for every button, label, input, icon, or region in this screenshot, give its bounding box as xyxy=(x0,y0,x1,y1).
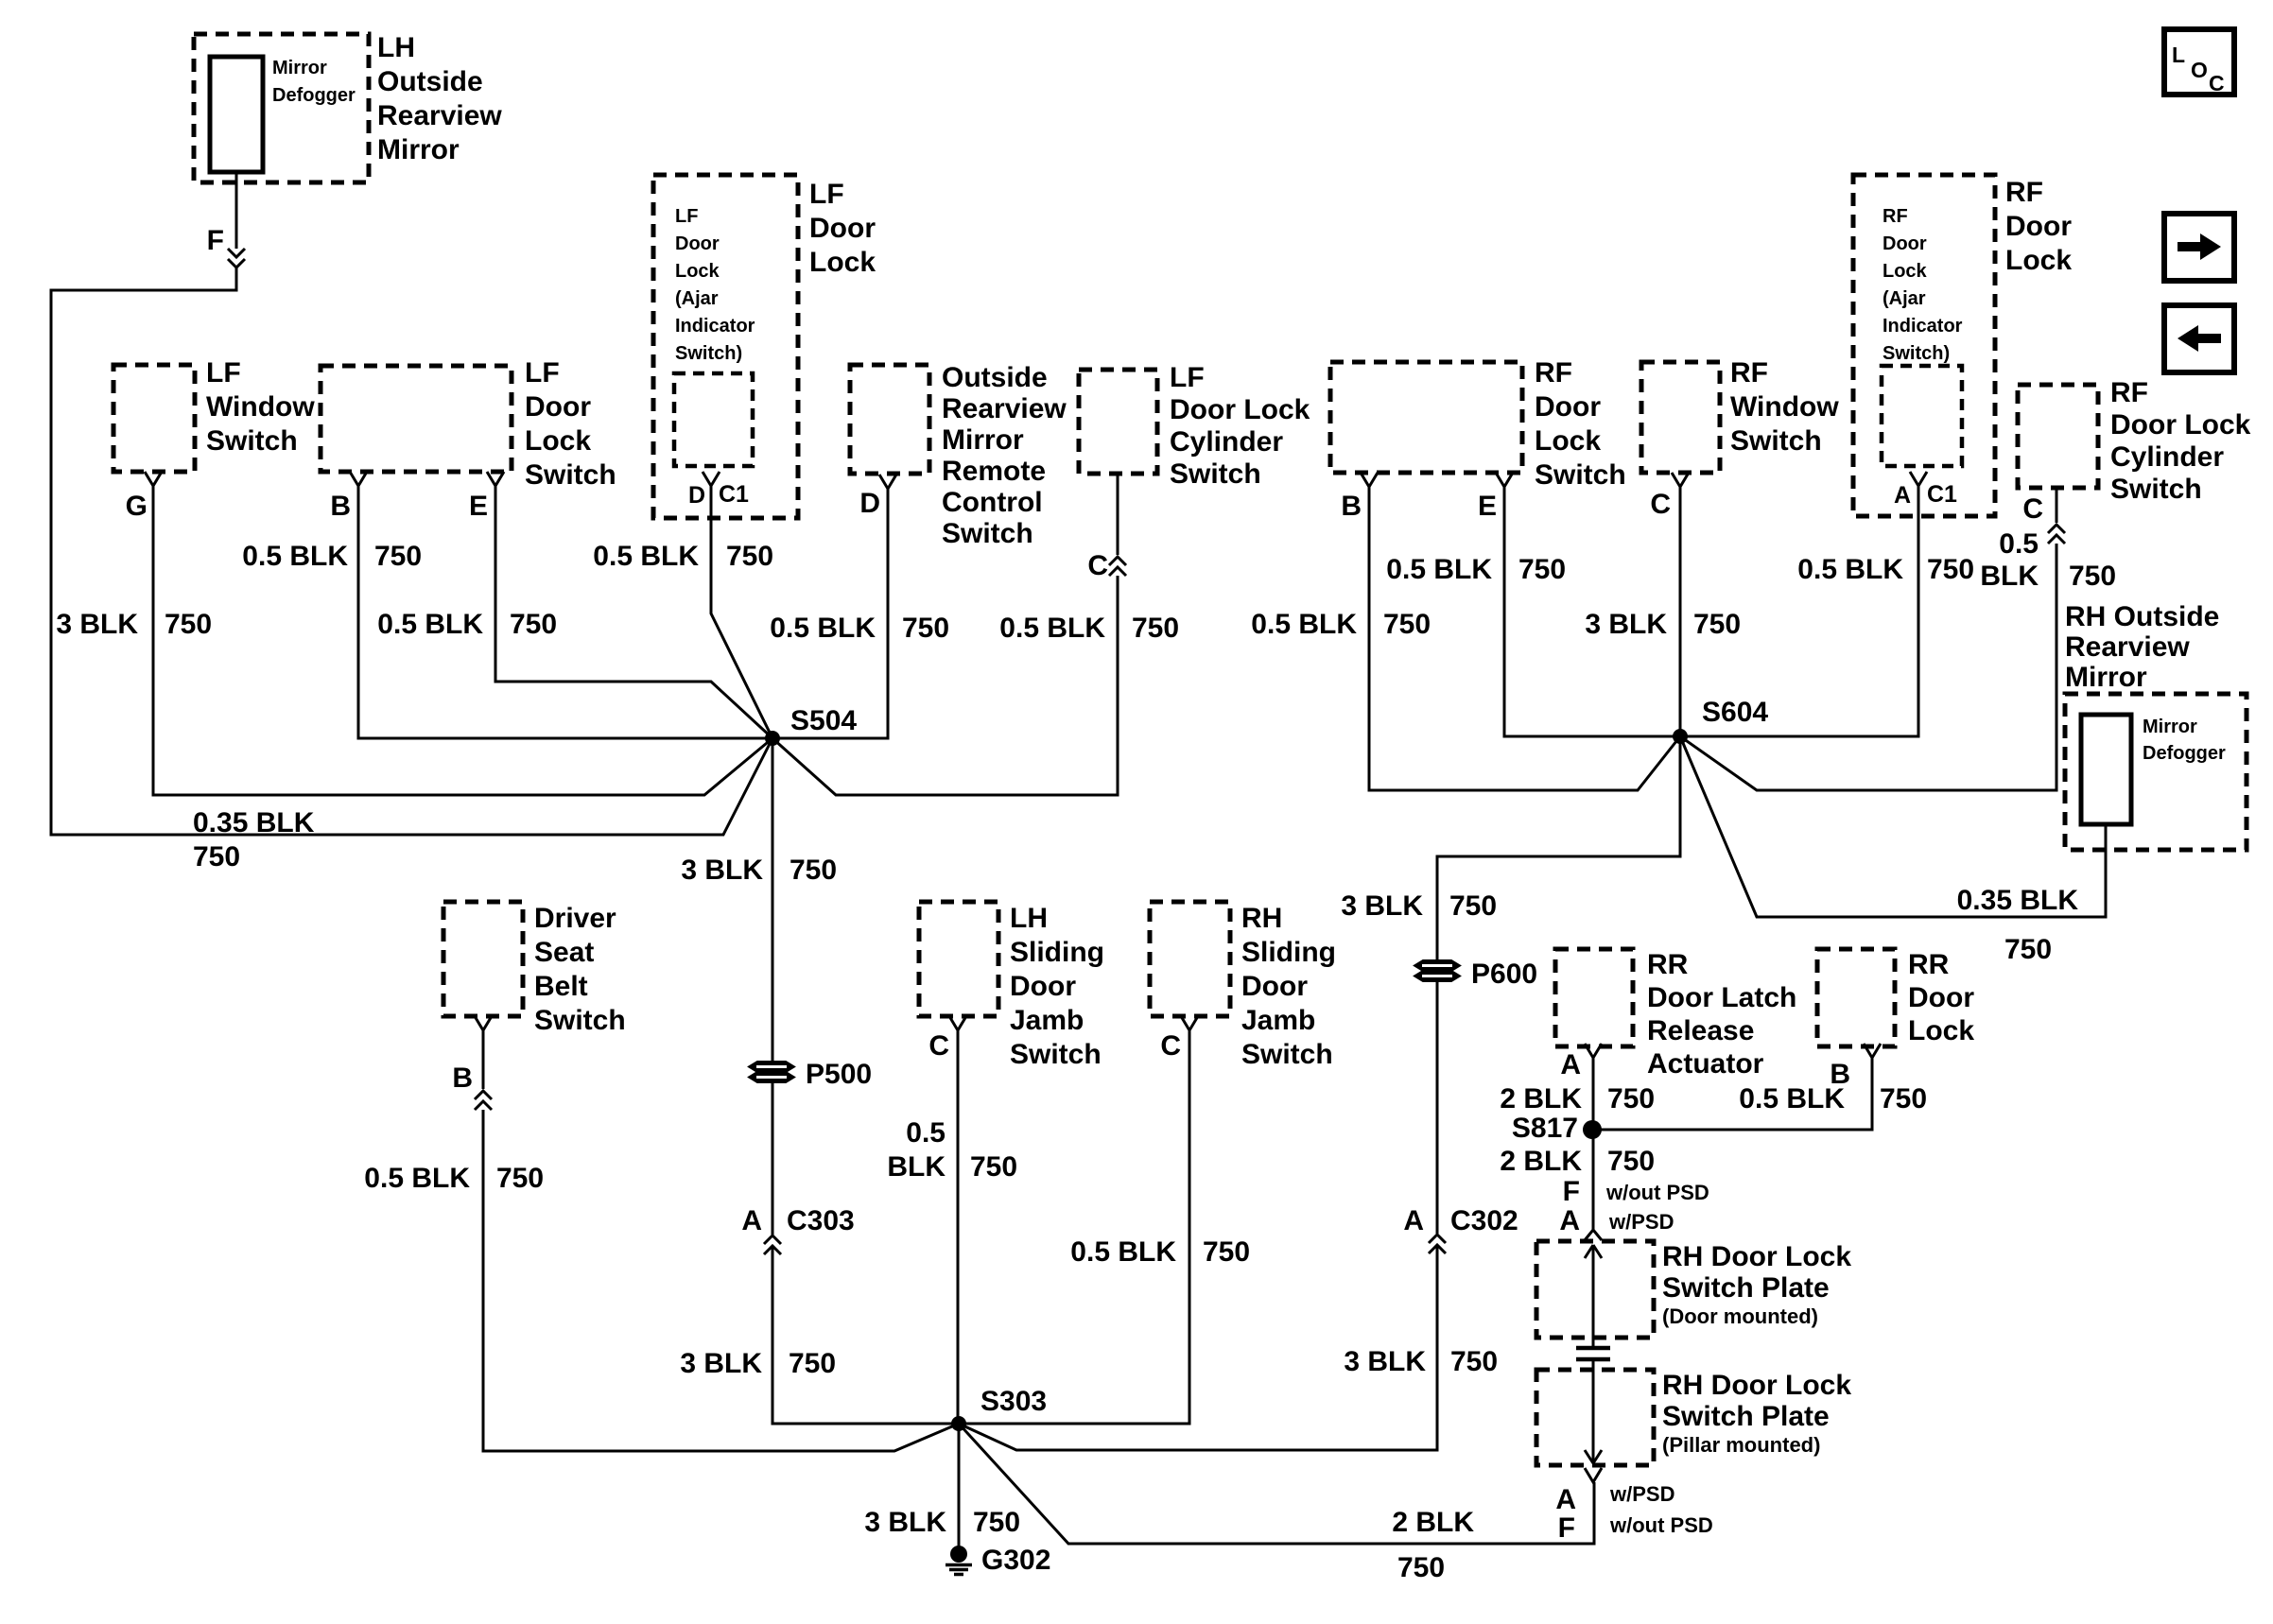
outside rearview mirror remote control switch box xyxy=(850,365,929,474)
svg-text:w/PSD: w/PSD xyxy=(1608,1210,1674,1234)
svg-text:Door: Door xyxy=(1241,971,1308,1002)
left arrow box xyxy=(2164,305,2234,372)
pin G fork xyxy=(145,472,162,486)
svg-text:0.5 BLK: 0.5 BLK xyxy=(364,1163,470,1194)
svg-text:750: 750 xyxy=(1518,554,1566,585)
svg-text:Switch: Switch xyxy=(206,425,298,457)
svg-text:LH: LH xyxy=(377,32,415,63)
right arrow box xyxy=(2164,214,2234,281)
svg-text:Jamb: Jamb xyxy=(1241,1005,1315,1036)
svg-text:A: A xyxy=(1555,1484,1576,1515)
svg-text:Sliding: Sliding xyxy=(1010,937,1104,968)
arrow down inside pillar mounted plate xyxy=(1592,1361,1595,1461)
svg-text:750: 750 xyxy=(1880,1083,1927,1114)
wire C from LF cylinder switch xyxy=(1117,474,1119,555)
pin B fork (RF) xyxy=(1361,473,1378,487)
svg-text:w/out PSD: w/out PSD xyxy=(1605,1181,1709,1204)
pin A fork (RR latch) xyxy=(1585,1044,1602,1058)
svg-text:C: C xyxy=(1650,489,1671,520)
wire RH defogger 0.35 BLK 750 to S604 xyxy=(1680,736,2106,917)
svg-text:Lock: Lock xyxy=(525,425,591,457)
svg-text:RH Door Lock: RH Door Lock xyxy=(1662,1241,1851,1272)
svg-text:Cylinder: Cylinder xyxy=(1170,426,1283,458)
wire B from seat belt switch xyxy=(482,1030,485,1089)
svg-text:Lock: Lock xyxy=(809,247,876,278)
connector chevrons B (seat belt) xyxy=(475,1091,492,1099)
svg-text:0.5 BLK: 0.5 BLK xyxy=(770,613,876,644)
svg-text:Lock: Lock xyxy=(1535,425,1601,457)
LH outside rearview mirror box xyxy=(194,34,369,182)
connector chevrons on wire F xyxy=(228,249,245,257)
pin A/C1 fork (RF ajar) xyxy=(1910,472,1927,486)
RF door lock cylinder switch box xyxy=(2018,385,2098,488)
svg-text:3 BLK: 3 BLK xyxy=(1341,890,1423,922)
LF window switch box xyxy=(113,365,195,472)
svg-text:0.5 BLK: 0.5 BLK xyxy=(1797,554,1903,585)
svg-text:(Pillar mounted): (Pillar mounted) xyxy=(1662,1433,1820,1457)
svg-text:Switch: Switch xyxy=(1730,425,1822,457)
svg-text:750: 750 xyxy=(2069,561,2116,592)
wire 3 BLK 750 to S303 (right) xyxy=(959,1245,1437,1450)
svg-text:Seat: Seat xyxy=(534,937,594,968)
pin B fork (seat belt) xyxy=(475,1016,492,1030)
svg-text:0.35 BLK: 0.35 BLK xyxy=(193,807,315,838)
door/pillar interface bars xyxy=(1576,1348,1610,1359)
svg-text:Door Lock: Door Lock xyxy=(1170,394,1310,425)
RH sliding door jamb switch box xyxy=(1150,902,1230,1016)
svg-text:C: C xyxy=(2209,71,2225,95)
pin B fork xyxy=(350,472,367,486)
svg-text:Switch Plate: Switch Plate xyxy=(1662,1401,1830,1432)
svg-text:2 BLK: 2 BLK xyxy=(1500,1083,1582,1114)
wire A RR latch 2 BLK 750 xyxy=(1592,1058,1595,1130)
svg-text:Door: Door xyxy=(1883,233,1927,254)
pin fork below pillar plate xyxy=(1585,1468,1602,1482)
RR door latch release actuator box xyxy=(1555,949,1633,1046)
connector chevrons C302 xyxy=(1429,1235,1446,1243)
RF door lock switch box xyxy=(1330,362,1522,473)
svg-text:LH: LH xyxy=(1010,903,1048,934)
svg-text:A: A xyxy=(1559,1205,1580,1236)
wire below P500 xyxy=(772,1083,774,1235)
mirror defogger element (LH) xyxy=(210,57,263,172)
svg-text:Switch: Switch xyxy=(525,459,616,491)
svg-text:750: 750 xyxy=(1450,1346,1498,1377)
svg-text:Door: Door xyxy=(809,213,876,244)
svg-text:0.5 BLK: 0.5 BLK xyxy=(1251,609,1357,640)
svg-text:C303: C303 xyxy=(787,1205,855,1236)
connector P600 xyxy=(1414,960,1460,971)
svg-text:3 BLK: 3 BLK xyxy=(56,609,138,640)
RF window switch box xyxy=(1641,362,1720,473)
wire 2 BLK 750 below S817 xyxy=(1592,1130,1595,1230)
svg-text:0.35 BLK: 0.35 BLK xyxy=(1957,885,2079,916)
svg-text:Switch: Switch xyxy=(1170,458,1261,490)
svg-text:LF: LF xyxy=(809,179,844,210)
svg-text:Rearview: Rearview xyxy=(2065,631,2190,663)
pin D/C1 fork xyxy=(703,472,720,486)
svg-text:S604: S604 xyxy=(1702,697,1768,728)
svg-text:Switch: Switch xyxy=(2110,474,2202,505)
svg-text:D: D xyxy=(688,482,705,509)
svg-text:750: 750 xyxy=(970,1151,1017,1183)
svg-text:RF: RF xyxy=(1730,357,1768,389)
svg-text:w/out PSD: w/out PSD xyxy=(1609,1513,1713,1537)
svg-text:Sliding: Sliding xyxy=(1241,937,1336,968)
wire C 0.5 BLK 750 to S504 xyxy=(772,576,1118,795)
wire 3 BLK 750 to S303 xyxy=(772,1246,958,1424)
svg-text:Indicator: Indicator xyxy=(1883,316,1963,337)
svg-text:Defogger: Defogger xyxy=(2143,743,2226,764)
svg-text:Door: Door xyxy=(1908,982,1974,1013)
splice S303 junction dot xyxy=(951,1416,966,1431)
wire B 0.5 BLK 750 xyxy=(358,486,772,738)
svg-text:3 BLK: 3 BLK xyxy=(680,1348,762,1379)
svg-text:Door: Door xyxy=(2005,211,2072,242)
RH door lock switch plate door mounted box xyxy=(1536,1241,1654,1338)
svg-text:Belt: Belt xyxy=(534,971,588,1002)
pin E fork (RF) xyxy=(1496,473,1513,487)
svg-text:C: C xyxy=(928,1030,949,1062)
svg-text:G: G xyxy=(126,491,147,522)
LF door lock switch box xyxy=(321,366,512,472)
svg-text:RF: RF xyxy=(1535,357,1572,389)
connector fork into switch plate xyxy=(1585,1230,1602,1240)
svg-text:RR: RR xyxy=(1647,949,1689,980)
pin E fork xyxy=(487,472,504,486)
svg-text:750: 750 xyxy=(1607,1083,1655,1114)
svg-text:Actuator: Actuator xyxy=(1647,1048,1764,1080)
svg-text:Lock: Lock xyxy=(2005,245,2072,276)
ground G302 symbol xyxy=(950,1546,967,1563)
LF door lock ajar indicator outer box xyxy=(653,175,798,518)
svg-text:3 BLK: 3 BLK xyxy=(1585,609,1667,640)
pin C fork (RH jamb) xyxy=(1181,1016,1198,1030)
wire G 3 BLK 750 xyxy=(153,486,772,795)
svg-text:Door: Door xyxy=(1010,971,1076,1002)
svg-text:Jamb: Jamb xyxy=(1010,1005,1084,1036)
svg-text:0.5 BLK: 0.5 BLK xyxy=(377,609,483,640)
connector P500 xyxy=(749,1062,794,1072)
svg-text:RF: RF xyxy=(1883,206,1908,227)
pin C fork (LH jamb) xyxy=(949,1016,966,1030)
svg-text:S817: S817 xyxy=(1512,1113,1578,1144)
svg-text:P600: P600 xyxy=(1471,959,1537,990)
svg-text:LF: LF xyxy=(1170,362,1205,393)
svg-text:C: C xyxy=(1087,550,1108,581)
svg-text:G302: G302 xyxy=(981,1545,1050,1576)
RF door lock ajar indicator inner box xyxy=(1882,366,1962,466)
wire 0.5 BLK 750 to S303 xyxy=(483,1110,959,1451)
svg-text:Remote: Remote xyxy=(942,456,1046,487)
svg-text:(Door mounted): (Door mounted) xyxy=(1662,1304,1818,1328)
svg-text:C: C xyxy=(1160,1030,1181,1062)
splice S817 junction dot xyxy=(1583,1120,1602,1139)
svg-text:E: E xyxy=(1478,491,1497,522)
svg-text:RR: RR xyxy=(1908,949,1950,980)
svg-text:0.5 BLK: 0.5 BLK xyxy=(242,541,348,572)
svg-text:Indicator: Indicator xyxy=(675,316,755,337)
svg-text:Switch): Switch) xyxy=(675,343,742,364)
svg-text:750: 750 xyxy=(1927,554,1974,585)
svg-text:LF: LF xyxy=(525,357,560,389)
svg-text:0.5 BLK: 0.5 BLK xyxy=(1070,1236,1176,1268)
pin D fork (ORVM) xyxy=(879,475,896,489)
wire 0.35 BLK 750 (F to S504) xyxy=(51,268,772,835)
svg-text:RH: RH xyxy=(1241,903,1282,934)
svg-text:O: O xyxy=(2191,58,2208,82)
svg-text:RH Outside: RH Outside xyxy=(2065,601,2219,632)
svg-text:750: 750 xyxy=(165,609,212,640)
wire D ORVM 0.5 BLK 750 xyxy=(772,489,888,738)
svg-text:C: C xyxy=(2022,493,2043,525)
svg-text:Rearview: Rearview xyxy=(377,100,502,131)
wire A RF ajar 0.5 BLK 750 xyxy=(1680,486,1918,736)
svg-text:750: 750 xyxy=(789,1348,836,1379)
svg-text:Driver: Driver xyxy=(534,903,616,934)
svg-text:C1: C1 xyxy=(719,481,749,508)
driver seat belt switch box xyxy=(443,902,523,1016)
svg-text:RH Door Lock: RH Door Lock xyxy=(1662,1370,1851,1401)
svg-text:750: 750 xyxy=(1203,1236,1250,1268)
LF door lock cylinder switch box xyxy=(1079,370,1157,474)
RH outside rearview mirror box xyxy=(2065,694,2247,850)
svg-text:Defogger: Defogger xyxy=(272,85,356,106)
svg-text:Mirror: Mirror xyxy=(2065,662,2147,693)
mirror defogger element (RH) xyxy=(2081,715,2131,824)
svg-text:0.5: 0.5 xyxy=(1999,528,2039,560)
wire C RH jamb to S303 xyxy=(958,1030,1189,1424)
svg-text:750: 750 xyxy=(973,1507,1020,1538)
svg-text:Window: Window xyxy=(206,391,315,423)
svg-text:750: 750 xyxy=(374,541,422,572)
svg-text:750: 750 xyxy=(1397,1552,1445,1583)
svg-text:RF: RF xyxy=(2005,177,2043,208)
svg-text:F: F xyxy=(207,225,224,256)
wire C LH jamb to S303 xyxy=(957,1030,960,1424)
wire 2 BLK 750 S303 to switch plate xyxy=(959,1424,1594,1544)
svg-text:750: 750 xyxy=(2004,934,2052,965)
svg-text:P500: P500 xyxy=(806,1059,872,1090)
RH door lock switch plate pillar mounted box xyxy=(1536,1370,1654,1465)
wire 3 BLK 750 to ground xyxy=(958,1424,961,1546)
svg-text:Switch: Switch xyxy=(534,1005,626,1036)
svg-text:0.5 BLK: 0.5 BLK xyxy=(1739,1083,1845,1114)
wire C RF 3 BLK 750 xyxy=(1679,487,1682,736)
svg-text:2 BLK: 2 BLK xyxy=(1392,1507,1474,1538)
svg-text:3 BLK: 3 BLK xyxy=(1344,1346,1426,1377)
svg-text:2 BLK: 2 BLK xyxy=(1500,1146,1582,1177)
LH sliding door jamb switch box xyxy=(919,902,998,1016)
svg-text:D: D xyxy=(859,488,880,519)
svg-text:750: 750 xyxy=(1449,890,1497,922)
svg-text:Lock: Lock xyxy=(1883,261,1928,282)
RF door lock ajar indicator outer box xyxy=(1853,175,1995,516)
wire C RF cyl 0.5 BLK 750 to S604 xyxy=(1680,544,2056,790)
splice S504 junction dot xyxy=(765,731,780,746)
wire 3 BLK 750 down from S604 xyxy=(1437,736,1680,960)
svg-text:Switch: Switch xyxy=(1010,1039,1102,1070)
svg-text:0.5: 0.5 xyxy=(906,1117,946,1149)
pin B fork (RR lock) xyxy=(1864,1044,1881,1058)
svg-text:750: 750 xyxy=(193,841,240,872)
svg-text:A: A xyxy=(1403,1205,1424,1236)
svg-text:(Ajar: (Ajar xyxy=(675,288,719,309)
svg-text:750: 750 xyxy=(789,855,837,886)
svg-text:E: E xyxy=(469,491,488,522)
svg-text:A: A xyxy=(741,1205,762,1236)
svg-text:F: F xyxy=(1558,1512,1575,1544)
arrow up inside door mounted plate xyxy=(1592,1247,1595,1346)
svg-text:C302: C302 xyxy=(1450,1205,1518,1236)
svg-text:L: L xyxy=(2172,43,2185,67)
svg-text:BLK: BLK xyxy=(1980,561,2039,592)
svg-text:Lock: Lock xyxy=(1908,1015,1974,1046)
wire E RF 0.5 BLK 750 xyxy=(1504,487,1680,736)
svg-text:(Ajar: (Ajar xyxy=(1883,288,1926,309)
svg-text:Mirror: Mirror xyxy=(942,424,1024,456)
svg-text:RF: RF xyxy=(2110,377,2148,408)
svg-text:Door: Door xyxy=(1535,391,1601,423)
svg-text:Switch: Switch xyxy=(1535,459,1626,491)
LF door lock ajar indicator inner box xyxy=(674,373,753,466)
svg-text:0.5 BLK: 0.5 BLK xyxy=(999,613,1105,644)
svg-text:750: 750 xyxy=(1607,1146,1655,1177)
svg-text:Rearview: Rearview xyxy=(942,393,1067,424)
svg-text:Door Lock: Door Lock xyxy=(2110,409,2251,441)
svg-text:Door: Door xyxy=(675,233,720,254)
RR door lock box xyxy=(1817,949,1895,1046)
svg-text:0.5 BLK: 0.5 BLK xyxy=(593,541,699,572)
svg-text:w/PSD: w/PSD xyxy=(1609,1482,1674,1506)
connector chevrons C (RF cyl) xyxy=(2048,525,2065,533)
svg-text:Switch Plate: Switch Plate xyxy=(1662,1272,1830,1304)
wire D 0.5 BLK 750 xyxy=(711,486,772,738)
wire E 0.5 BLK 750 xyxy=(495,486,772,738)
svg-text:Control: Control xyxy=(942,487,1043,518)
svg-text:Release: Release xyxy=(1647,1015,1754,1046)
svg-text:Cylinder: Cylinder xyxy=(2110,441,2224,473)
svg-text:Lock: Lock xyxy=(675,261,720,282)
wire B RF 0.5 BLK 750 xyxy=(1369,487,1680,790)
svg-text:Door: Door xyxy=(525,391,591,423)
svg-text:Outside: Outside xyxy=(377,66,483,97)
svg-text:BLK: BLK xyxy=(887,1151,946,1183)
svg-text:B: B xyxy=(330,491,351,522)
svg-text:Outside: Outside xyxy=(942,362,1048,393)
svg-text:A: A xyxy=(1894,482,1911,509)
svg-text:B: B xyxy=(452,1063,473,1094)
svg-text:750: 750 xyxy=(1132,613,1179,644)
svg-text:Mirror: Mirror xyxy=(377,134,460,165)
pin C fork (RF window) xyxy=(1672,473,1689,487)
svg-text:750: 750 xyxy=(496,1163,544,1194)
wire C from RF cylinder switch xyxy=(2056,488,2058,523)
svg-text:Switch: Switch xyxy=(942,518,1033,549)
LOC reference box xyxy=(2164,29,2234,95)
splice S604 junction dot xyxy=(1673,729,1688,744)
svg-text:750: 750 xyxy=(510,609,557,640)
connector chevrons C303 xyxy=(764,1235,781,1244)
svg-text:S504: S504 xyxy=(790,705,857,736)
svg-text:750: 750 xyxy=(902,613,949,644)
svg-text:Mirror: Mirror xyxy=(2143,717,2197,737)
svg-text:Window: Window xyxy=(1730,391,1839,423)
svg-text:LF: LF xyxy=(675,206,698,227)
svg-text:B: B xyxy=(1341,491,1362,522)
svg-text:C1: C1 xyxy=(1927,481,1957,508)
wire 3 BLK 750 down from S504 xyxy=(772,738,774,1061)
svg-text:Door Latch: Door Latch xyxy=(1647,982,1796,1013)
svg-text:750: 750 xyxy=(1693,609,1741,640)
connector chevrons C (LF cyl) xyxy=(1109,557,1126,565)
svg-text:750: 750 xyxy=(726,541,773,572)
svg-text:3 BLK: 3 BLK xyxy=(864,1507,946,1538)
svg-text:F: F xyxy=(1563,1176,1580,1207)
svg-text:A: A xyxy=(1560,1049,1581,1080)
svg-text:0.5 BLK: 0.5 BLK xyxy=(1386,554,1492,585)
svg-text:S303: S303 xyxy=(980,1386,1047,1417)
svg-text:Switch: Switch xyxy=(1241,1039,1333,1070)
wire below P600 xyxy=(1436,982,1439,1234)
svg-text:LF: LF xyxy=(206,357,241,389)
wire F from defogger xyxy=(235,172,238,249)
svg-text:Switch): Switch) xyxy=(1883,343,1950,364)
wire B RR lock 0.5 BLK 750 xyxy=(1593,1058,1872,1130)
svg-text:750: 750 xyxy=(1383,609,1431,640)
svg-text:3 BLK: 3 BLK xyxy=(681,855,763,886)
svg-text:Mirror: Mirror xyxy=(272,58,327,78)
